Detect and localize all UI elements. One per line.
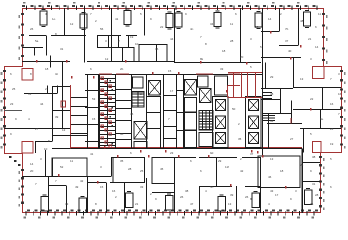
wall: core east boundary x262 [262, 63, 264, 158]
red door markers [36, 31, 312, 189]
svg-text:1o: 1o [52, 17, 56, 21]
svg-text:3: 3 [338, 72, 340, 76]
svg-text:9: 9 [310, 169, 312, 173]
svg-text:2: 2 [240, 157, 242, 161]
svg-text:9: 9 [155, 197, 157, 201]
svg-text:17: 17 [170, 89, 174, 93]
walls: core south wall with red line [52, 147, 302, 148]
svg-text:9: 9 [10, 132, 12, 136]
svg-text:28: 28 [315, 193, 319, 197]
svg-text:48: 48 [270, 92, 274, 96]
room number text labels (tiny) [10, 12, 342, 206]
walls: left core stack rooms (x71-87) and red riser wall [52, 75, 88, 149]
svg-text:40: 40 [288, 49, 292, 53]
svg-text:7: 7 [168, 117, 170, 121]
svg-text:9: 9 [290, 197, 292, 201]
svg-text:36: 36 [310, 202, 314, 206]
svg-text:23: 23 [10, 102, 14, 106]
svg-text:31: 31 [28, 92, 32, 96]
svg-text:41: 41 [90, 152, 94, 156]
svg-text:11: 11 [230, 22, 233, 26]
svg-text:11: 11 [318, 12, 321, 16]
svg-text:5: 5 [260, 45, 262, 49]
svg-text:11: 11 [70, 159, 73, 163]
elevator E1 (X box) [149, 81, 161, 96]
svg-text:5: 5 [310, 132, 312, 136]
svg-text:33: 33 [220, 67, 224, 71]
red shaft room NW [22, 69, 33, 81]
svg-text:6: 6 [130, 151, 132, 155]
svg-text:9d: 9d [210, 151, 214, 155]
stair A (hatched treads) [132, 92, 144, 108]
svg-text:13: 13 [270, 157, 274, 161]
svg-text:30: 30 [120, 132, 124, 136]
svg-text:6: 6 [200, 169, 202, 173]
svg-text:6: 6 [315, 25, 317, 29]
svg-text:33: 33 [65, 202, 69, 206]
svg-text:35: 35 [120, 159, 124, 163]
room box left (52-87) [52, 158, 87, 177]
svg-text:35: 35 [238, 137, 242, 141]
svg-text:6: 6 [90, 67, 92, 71]
svg-text:13: 13 [300, 77, 304, 81]
svg-text:7: 7 [338, 112, 340, 116]
svg-text:7: 7 [55, 179, 57, 183]
svg-text:16: 16 [338, 92, 342, 96]
dimension ticks and labels, top edge [22, 2, 317, 10]
svg-text:29: 29 [270, 75, 274, 79]
furniture symbols, south rooms [41, 189, 312, 213]
svg-text:56: 56 [100, 27, 104, 31]
svg-text:12: 12 [62, 128, 66, 132]
walls: south corridor walls [22, 150, 261, 177]
svg-text:2: 2 [280, 12, 282, 16]
svg-text:11f: 11f [225, 165, 229, 169]
svg-text:9: 9 [185, 12, 187, 16]
elevator E2 (X box) [134, 122, 147, 140]
furniture symbols, north rooms [40, 9, 311, 30]
svg-text:23: 23 [170, 151, 174, 155]
svg-text:42: 42 [80, 179, 84, 183]
svg-text:53: 53 [92, 97, 96, 101]
svg-text:4n: 4n [190, 27, 194, 31]
walls: core west stack rooms (x85-98) [85, 75, 99, 149]
svg-text:22: 22 [310, 97, 314, 101]
svg-text:3: 3 [100, 165, 102, 169]
svg-text:10: 10 [44, 147, 48, 151]
walls: east wing rooms [261, 58, 341, 153]
svg-text:2: 2 [150, 192, 152, 196]
svg-text:41: 41 [115, 17, 119, 21]
svg-text:50: 50 [232, 107, 236, 111]
walls: left hall partitions [4, 56, 70, 154]
stair B (hatched treads) [199, 111, 213, 131]
svg-text:25: 25 [12, 87, 16, 91]
svg-text:34: 34 [210, 22, 214, 26]
svg-text:7: 7 [330, 77, 332, 81]
svg-text:38: 38 [312, 155, 316, 159]
walls: shaft column x146-161 [146, 75, 161, 149]
red shaft room NE [313, 67, 325, 79]
WC core strip with red fixtures (x100-115) [100, 75, 116, 149]
svg-text:4: 4 [205, 189, 207, 193]
svg-text:27: 27 [290, 137, 294, 141]
svg-text:5: 5 [140, 12, 142, 16]
svg-text:29: 29 [218, 159, 222, 163]
svg-text:25: 25 [140, 169, 144, 173]
svg-text:52: 52 [60, 165, 64, 169]
svg-text:3: 3 [295, 189, 297, 193]
walls: south band room partitions (horizontal) [48, 163, 320, 193]
svg-text:15: 15 [100, 185, 104, 189]
shaft box above stair A [133, 77, 144, 88]
svg-text:24: 24 [330, 127, 334, 131]
svg-text:19: 19 [130, 35, 134, 39]
svg-text:20: 20 [240, 55, 244, 59]
svg-text:21: 21 [135, 202, 139, 206]
svg-text:14: 14 [30, 162, 34, 166]
svg-text:38: 38 [185, 189, 189, 193]
svg-text:15: 15 [168, 69, 172, 73]
machine room below E2 [134, 142, 147, 149]
svg-text:3: 3 [310, 57, 312, 61]
dimension ticks, left lower edge [1, 70, 6, 149]
svg-text:31: 31 [60, 47, 64, 51]
red shaft room SE [313, 142, 322, 153]
svg-text:7: 7 [35, 182, 37, 186]
svg-text:2: 2 [45, 87, 47, 91]
svg-text:28: 28 [230, 39, 234, 43]
svg-text:46: 46 [268, 175, 272, 179]
walls: core rooms x163-176 [163, 75, 177, 149]
svg-text:2: 2 [95, 19, 97, 23]
svg-text:18: 18 [222, 49, 226, 53]
room box east (258-300) [258, 156, 300, 188]
svg-text:47: 47 [190, 202, 194, 206]
red shaft room SW [22, 142, 33, 154]
svg-text:3c: 3c [55, 72, 59, 76]
svg-text:7b: 7b [285, 27, 289, 31]
svg-text:3: 3 [105, 39, 107, 43]
dimension marks at left jog [9, 156, 20, 166]
room box A (113-144) [113, 158, 145, 183]
svg-text:8: 8 [95, 202, 97, 206]
walls: top band room partitions (horizontal + closets) [22, 32, 298, 62]
shaft stack x184-196 [185, 98, 197, 148]
svg-text:6: 6 [235, 12, 237, 16]
svg-text:18: 18 [280, 169, 284, 173]
svg-text:10: 10 [135, 42, 139, 46]
svg-text:22: 22 [160, 25, 164, 29]
svg-text:45: 45 [160, 167, 164, 171]
svg-text:43: 43 [270, 189, 274, 193]
svg-text:4: 4 [268, 202, 270, 206]
svg-text:20: 20 [30, 169, 34, 173]
svg-text:8e: 8e [320, 117, 324, 121]
red mechanical rooms x228-262 [228, 73, 263, 98]
svg-text:6: 6 [190, 159, 192, 163]
room above E4 [198, 76, 209, 87]
svg-text:24: 24 [300, 163, 304, 167]
svg-text:8: 8 [205, 42, 207, 46]
svg-text:28: 28 [128, 167, 132, 171]
room box B (152-174) [152, 158, 175, 184]
svg-text:21: 21 [308, 37, 312, 41]
dimension ticks, left bottom edge [19, 169, 25, 207]
svg-text:46: 46 [130, 112, 134, 116]
svg-text:39: 39 [55, 115, 59, 119]
dimension ticks, right bottom edge [319, 156, 325, 210]
walls: south band room partitions (vertical) [49, 149, 303, 214]
walls: upper corridor north wall [22, 58, 301, 63]
svg-text:4: 4 [140, 92, 142, 96]
svg-text:5a: 5a [35, 39, 39, 43]
room x215-228 upper [215, 76, 228, 95]
svg-text:31: 31 [312, 182, 316, 186]
svg-text:37: 37 [285, 39, 289, 43]
svg-text:18: 18 [45, 67, 49, 71]
svg-text:9: 9 [15, 117, 17, 121]
svg-text:16: 16 [330, 102, 334, 106]
svg-text:4: 4 [28, 117, 30, 121]
svg-text:9: 9 [150, 17, 152, 21]
elevator E4 (X box) [200, 89, 212, 103]
svg-text:27: 27 [35, 127, 39, 131]
svg-text:16: 16 [112, 189, 116, 193]
walls: core rooms x115-131 [115, 75, 132, 149]
svg-text:44: 44 [40, 102, 44, 106]
svg-text:2: 2 [115, 195, 117, 199]
svg-text:19: 19 [330, 142, 334, 146]
svg-text:49: 49 [75, 185, 79, 189]
svg-text:42: 42 [240, 169, 244, 173]
dimension ticks, right upper edge [322, 13, 328, 64]
svg-text:12: 12 [105, 57, 109, 61]
svg-text:2: 2 [118, 39, 120, 43]
svg-text:5h: 5h [210, 185, 214, 189]
svg-text:26: 26 [245, 195, 249, 199]
svg-text:6: 6 [330, 185, 332, 189]
svg-text:5: 5 [330, 157, 332, 161]
dimension ticks, right middle edge [340, 70, 346, 149]
svg-text:36: 36 [155, 47, 159, 51]
walls: core north wall with red segments [85, 73, 262, 76]
svg-text:34: 34 [270, 119, 274, 123]
dimension ticks and labels, bottom edge [24, 209, 319, 218]
svg-text:3: 3 [250, 37, 252, 41]
svg-text:13: 13 [228, 202, 232, 206]
dimension ticks, left upper edge [19, 13, 25, 60]
svg-text:3: 3 [40, 157, 42, 161]
svg-text:2b: 2b [120, 67, 124, 71]
elevator E3 (X box) [185, 80, 197, 96]
walls: top band room partitions (vertical) [65, 8, 299, 74]
svg-text:26: 26 [30, 27, 34, 31]
walls: narrow riser column x177-183 [177, 75, 184, 149]
svg-text:15: 15 [92, 117, 96, 121]
svg-text:44: 44 [170, 37, 174, 41]
svg-text:7: 7 [90, 12, 92, 16]
svg-text:12: 12 [70, 22, 74, 26]
svg-text:14: 14 [268, 17, 272, 21]
svg-text:2: 2 [238, 122, 240, 126]
elevator bank (3x2 X boxes) [213, 97, 262, 148]
svg-text:6: 6 [10, 72, 12, 76]
svg-text:26: 26 [180, 195, 184, 199]
svg-text:14: 14 [315, 45, 319, 49]
svg-text:8k: 8k [200, 57, 204, 61]
stair B lower landing [199, 133, 213, 147]
svg-text:17: 17 [275, 193, 279, 197]
svg-text:39: 39 [230, 193, 234, 197]
svg-text:33: 33 [140, 185, 144, 189]
svg-text:5: 5 [250, 65, 252, 69]
svg-text:7: 7 [200, 35, 202, 39]
svg-text:17: 17 [255, 25, 259, 29]
svg-text:48: 48 [300, 19, 304, 23]
